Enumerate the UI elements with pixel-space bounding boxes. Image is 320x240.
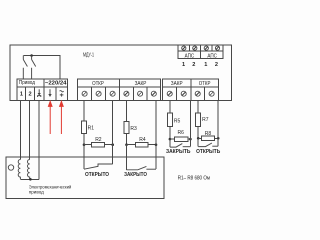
svg-text:ЗАКРЫТЬ: ЗАКРЫТЬ bbox=[166, 149, 191, 155]
resistor R8 bbox=[198, 137, 201, 139]
node bbox=[169, 138, 172, 141]
svg-text:R1: R1 bbox=[88, 126, 95, 132]
switch S2 (limit contact to terminal 2) bbox=[32, 56, 36, 80]
node bbox=[125, 143, 128, 146]
terminal block ~220/24 header bbox=[44, 79, 67, 87]
wire привод earth down bbox=[38, 100, 40, 179]
terminal block АПС (4 terminals, top) bbox=[178, 45, 223, 51]
resistor R3 bbox=[124, 121, 129, 133]
node bbox=[197, 137, 200, 140]
svg-text:2: 2 bbox=[29, 91, 32, 97]
button ОТКРЫТЬ (NO push contact) bbox=[197, 138, 199, 146]
terminal block Привод header bbox=[17, 79, 44, 87]
switch ОТКРЫТО (closed limit contact) bbox=[83, 145, 85, 170]
svg-text:R4: R4 bbox=[139, 137, 146, 143]
wire R7 to node bbox=[197, 127, 199, 139]
wire ЗАКР2 t1 down bbox=[169, 100, 171, 113]
~220/24 cell N (earth arrow) bbox=[44, 87, 56, 100]
svg-text:ОТКРЫТЬ: ОТКРЫТЬ bbox=[196, 149, 220, 155]
svg-text:АПС: АПС bbox=[185, 53, 195, 59]
~220/24 cell phase (~ +) bbox=[56, 87, 68, 100]
svg-text:АПС: АПС bbox=[207, 53, 217, 59]
switch S1 (limit contact to terminal 1) bbox=[23, 56, 27, 80]
wire ОТКР t1 down bbox=[83, 100, 85, 121]
module МДУ-1 main box bbox=[10, 45, 232, 100]
coil L1 bbox=[18, 160, 20, 180]
wire: internal common bus bbox=[23, 56, 60, 80]
АПС header 2 bbox=[201, 51, 224, 58]
wire ОТКР t3 down bbox=[112, 100, 114, 144]
wire ОТКР2 t2 down bbox=[217, 100, 219, 138]
red arrow power feed 1 bbox=[48, 101, 52, 134]
node: coil common junction bbox=[29, 178, 32, 181]
motor circle bbox=[8, 165, 13, 170]
node bbox=[83, 143, 86, 146]
wire R1 to node bbox=[83, 133, 85, 144]
svg-text:1: 1 bbox=[182, 62, 185, 68]
ground symbol in cell 3 bbox=[38, 89, 40, 93]
box Электромеханический привод bbox=[6, 157, 164, 199]
resistor R5 bbox=[167, 113, 172, 127]
resistor R7 bbox=[196, 113, 201, 127]
svg-text:ОТКР: ОТКР bbox=[199, 81, 211, 87]
terminal block Привод cells 1 2 earth bbox=[17, 87, 25, 100]
node bbox=[111, 143, 114, 146]
АПС header 1 bbox=[178, 51, 201, 58]
wire R5 to node bbox=[169, 127, 171, 139]
svg-text:1: 1 bbox=[204, 62, 207, 68]
wire привод terminal 2 down bbox=[29, 100, 31, 159]
switch ЗАКРЫТО (open limit contact) bbox=[126, 145, 128, 170]
svg-text:R5: R5 bbox=[174, 119, 181, 125]
terminal block ЗАКР (2 terminals) bbox=[163, 79, 191, 87]
svg-text:R7: R7 bbox=[202, 117, 209, 123]
svg-text:МДУ-1: МДУ-1 bbox=[83, 52, 94, 58]
wire R3 to node bbox=[126, 134, 128, 145]
node bbox=[155, 143, 158, 146]
resistor R6 bbox=[170, 138, 175, 140]
node bbox=[189, 138, 192, 141]
coil L2 bbox=[27, 160, 29, 180]
svg-text:ОТКРЫТО: ОТКРЫТО bbox=[85, 172, 109, 178]
terminal block ЗАКР (3 terminals) bbox=[120, 79, 161, 87]
wire coil common bbox=[20, 178, 39, 180]
red arrow power feed 2 bbox=[60, 101, 64, 134]
svg-text:Привод: Привод bbox=[19, 80, 35, 86]
node bbox=[217, 137, 220, 140]
resistor R1 bbox=[82, 121, 87, 133]
wire ЗАКР t3 down bbox=[155, 100, 157, 144]
wire ОТКР2 t1 down bbox=[197, 100, 199, 113]
svg-text:ОТКР: ОТКР bbox=[92, 81, 104, 87]
svg-text:R6: R6 bbox=[177, 130, 184, 136]
terminal block ОТКР (3 terminals) bbox=[78, 79, 120, 87]
svg-text:ЗАКР: ЗАКР bbox=[135, 81, 147, 87]
svg-text:привод: привод bbox=[29, 189, 45, 194]
svg-text:R8: R8 bbox=[205, 131, 212, 137]
resistor R2 bbox=[84, 144, 92, 146]
svg-text:R1– R8 680 Ом: R1– R8 680 Ом bbox=[178, 176, 211, 182]
svg-text:R3: R3 bbox=[130, 126, 137, 132]
svg-text:2: 2 bbox=[215, 62, 218, 68]
button ЗАКРЫТЬ (NO push contact) bbox=[169, 139, 171, 147]
wire ЗАКР2 t2 down bbox=[189, 100, 191, 139]
svg-text:1: 1 bbox=[20, 91, 23, 97]
svg-text:R2: R2 bbox=[95, 137, 102, 143]
wire привод terminal 1 down bbox=[19, 100, 21, 159]
svg-text:~220/24: ~220/24 bbox=[45, 81, 68, 87]
svg-text:ЗАКР: ЗАКР bbox=[171, 81, 183, 87]
svg-text:2: 2 bbox=[192, 62, 195, 68]
terminal block ОТКР (2 terminals) bbox=[191, 79, 219, 87]
resistor R4 bbox=[127, 144, 136, 146]
wire ЗАКР t1 down bbox=[126, 100, 128, 121]
svg-text:ЗАКРЫТО: ЗАКРЫТО bbox=[124, 172, 147, 178]
node: junction dot on bus bbox=[30, 54, 33, 57]
